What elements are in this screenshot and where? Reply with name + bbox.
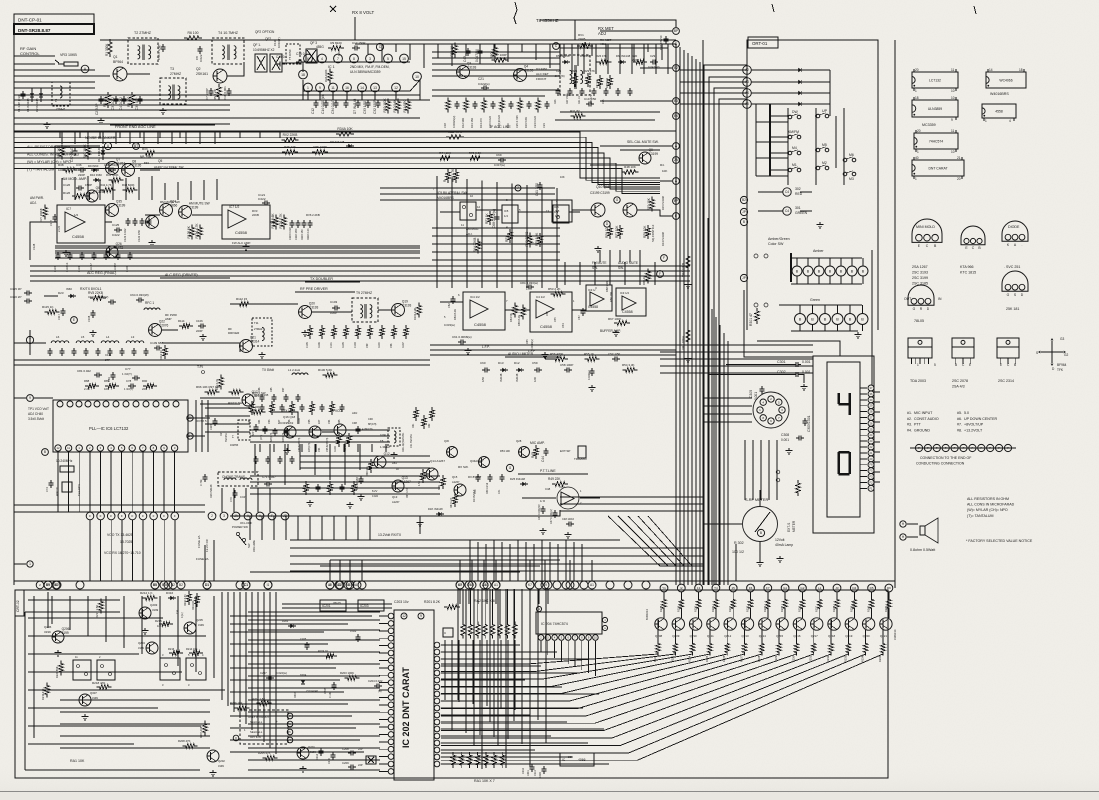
svg-text:Q15: Q15 [452, 475, 458, 479]
svg-text:R100: R100 [334, 446, 337, 452]
svg-text:K7: K7 [528, 583, 532, 587]
svg-text:R 302: R 302 [734, 541, 744, 545]
svg-text:M4: M4 [792, 146, 797, 150]
IC5 1/4 box [552, 200, 572, 222]
PLL vertical drop wires [57, 452, 59, 512]
svg-text:R228: R228 [659, 605, 663, 612]
IF bus lines [230, 94, 420, 96]
svg-text:Q209: Q209 [672, 634, 679, 638]
svg-text:C21: C21 [478, 77, 484, 81]
connector pin above Q215 [781, 584, 789, 592]
svg-text:R107: R107 [402, 342, 405, 348]
svg-text:R105: R105 [342, 342, 345, 348]
resistor R1 330K [108, 39, 112, 57]
svg-text:K7: K7 [458, 583, 462, 587]
transistor Q18 [309, 426, 321, 438]
svg-text:F7: F7 [766, 586, 770, 590]
svg-text:R87 1.2K: R87 1.2K [450, 497, 453, 508]
svg-text:R53 10K: R53 10K [500, 449, 510, 453]
svg-text:C12: C12 [311, 108, 315, 114]
opamp IC3 1/2 second [616, 288, 646, 316]
if right horizontals full [560, 47, 668, 49]
svg-text:C93: C93 [268, 419, 271, 424]
svg-text:10K: 10K [104, 387, 109, 391]
svg-text:2-1/4: 2-1/4 [57, 226, 61, 232]
svg-text:R211 9K: R211 9K [192, 600, 195, 610]
svg-text:G3: G3 [1060, 337, 1064, 341]
svg-text:R27 150K: R27 150K [566, 93, 569, 104]
transistor TX VCO Q [334, 424, 346, 436]
svg-text:20: 20 [957, 177, 961, 181]
svg-text:Q211: Q211 [707, 634, 714, 638]
resistor R9 8220 [328, 46, 344, 50]
svg-text:C18: C18 [443, 123, 447, 128]
svg-text:F: F [121, 514, 123, 518]
switch box 4 [186, 658, 206, 680]
display area border [702, 40, 704, 585]
svg-text:R111 47: R111 47 [90, 263, 93, 272]
svg-text:22K: 22K [142, 387, 147, 391]
svg-text:100P: 100P [337, 49, 341, 56]
resistor R233 [748, 597, 752, 612]
pins column right of IF [673, 28, 680, 35]
connector pin above Q213 [747, 584, 755, 592]
svg-text:AMP: AMP [165, 317, 172, 321]
svg-text:Q216: Q216 [793, 634, 800, 638]
svg-text:D18. IN4148: D18. IN4148 [428, 507, 443, 511]
svg-text:3199: 3199 [152, 608, 159, 612]
resistor R230 lower [794, 641, 798, 656]
noise blanker extra verticals [61, 131, 63, 144]
svg-text:C48: C48 [545, 487, 551, 491]
PLL top pins [57, 401, 63, 407]
svg-text:TX 8Volt: TX 8Volt [262, 368, 274, 372]
IC5 switch box 3 [553, 205, 569, 223]
svg-text:TFK: TFK [1057, 368, 1064, 372]
svg-text:R94: R94 [258, 419, 261, 424]
transistor Q24 A866 [160, 204, 173, 217]
svg-text:POWER SW: POWER SW [232, 525, 248, 529]
svg-text:10/10(T): 10/10(T) [277, 37, 281, 48]
pin BT [133, 143, 140, 150]
svg-text:C3193: C3193 [524, 69, 534, 73]
IC5 switch box 1 [460, 202, 476, 220]
transistor Q217 [811, 618, 823, 630]
svg-text:* FACTORY SELECTED VALUE NOTIC: * FACTORY SELECTED VALUE NOTICE [966, 539, 1033, 543]
pin C rx met [553, 43, 560, 50]
svg-text:L5: L5 [81, 335, 85, 339]
svg-text:Amber: Amber [813, 249, 824, 253]
staircase bus lines [14, 132, 660, 178]
transistor Q19 C3193 [392, 304, 405, 317]
svg-text:10: 10 [470, 194, 474, 198]
package 78L05 [908, 285, 934, 305]
svg-text:R48 10K: R48 10K [624, 165, 636, 169]
svg-text:11: 11 [951, 129, 955, 133]
svg-text:C4558: C4558 [588, 305, 598, 309]
title box DNT-SR28.8.87 [14, 24, 94, 34]
svg-text:C88: C88 [248, 419, 251, 424]
svg-text:R95: R95 [338, 419, 341, 424]
IF parts row under Q3/Q4 [446, 98, 450, 113]
bottom board mid horizontals [282, 603, 392, 605]
svg-text:0.022: 0.022 [372, 495, 379, 498]
74HC574 top pin 12 [536, 606, 541, 611]
svg-text:0.001: 0.001 [802, 360, 811, 364]
diodes on A lines [796, 69, 804, 71]
pin F squelch [661, 255, 668, 262]
svg-text:L1: L1 [818, 586, 822, 590]
fan horizontals to IC202 [441, 663, 527, 665]
svg-text:3199: 3199 [62, 631, 69, 635]
svg-text:A1: A1 [485, 583, 489, 587]
svg-text:1: 1 [307, 86, 309, 90]
pin G mic [506, 464, 513, 471]
svg-text:4.7P(CH): 4.7P(CH) [362, 428, 373, 431]
svg-text:F: F [954, 446, 956, 450]
alc rows horizontals [55, 245, 420, 247]
svg-text:10: 10 [951, 96, 955, 100]
regulator IC203 78L05 [358, 600, 384, 611]
svg-text:M2: M2 [822, 161, 827, 165]
svg-text:F: F [100, 514, 102, 518]
parts between IC7 and Q24 [126, 220, 131, 222]
svg-text:C94: C94 [318, 447, 321, 452]
svg-text:BF964: BF964 [1057, 363, 1067, 367]
svg-text:2SC 3193: 2SC 3193 [912, 271, 928, 275]
switch M2 [816, 166, 820, 170]
title box DNT-CP-01 [14, 14, 94, 24]
svg-text:R232: R232 [826, 655, 830, 662]
svg-text:F: F [663, 256, 665, 260]
resistor ladder RA1 10K X 7 [451, 752, 455, 768]
svg-text:C101: C101 [330, 342, 333, 348]
svg-text:Q213: Q213 [742, 634, 749, 638]
svg-text:82P: 82P [278, 419, 281, 424]
svg-text:R231: R231 [711, 605, 715, 612]
svg-text:15: 15 [402, 57, 406, 61]
svg-text:G: G [913, 307, 916, 311]
svg-text:301: 301 [795, 206, 801, 210]
svg-text:LC7132: LC7132 [929, 78, 941, 82]
svg-text:IC5: IC5 [504, 209, 509, 213]
svg-text:C2076: C2076 [159, 324, 169, 328]
connector pin above Q211 [712, 584, 720, 592]
svg-text:QF2 OPTION: QF2 OPTION [255, 30, 275, 34]
svg-text:C4: C4 [785, 190, 789, 194]
svg-text:R68 4.7K: R68 4.7K [451, 168, 455, 182]
svg-text:R66 10K: R66 10K [609, 292, 613, 302]
svg-text:R50 10/16: R50 10/16 [486, 482, 489, 494]
svg-text:100/1: 100/1 [527, 769, 530, 776]
mid horizontal runs 2 [30, 265, 690, 267]
svg-text:9: 9 [319, 86, 321, 90]
wire power bus [204, 545, 206, 581]
transistor Q208 [655, 618, 667, 630]
svg-text:12: 12 [56, 446, 60, 450]
IC1 pin 18 [299, 70, 308, 79]
mixer wires top [127, 73, 150, 75]
cap C68 0.022 [495, 216, 500, 218]
front end grounds [100, 118, 102, 121]
svg-text:C4 0.022: C4 0.022 [119, 97, 123, 110]
svg-text:C119 0.022: C119 0.022 [289, 227, 292, 240]
svg-text:R29 47K: R29 47K [584, 69, 595, 73]
svg-text:3: 3 [223, 514, 225, 518]
bottom page line [0, 791, 1099, 793]
svg-text:B2: B2 [179, 583, 183, 587]
svg-text:T9 27MHZ: T9 27MHZ [356, 291, 372, 295]
tx rows wires [14, 342, 46, 344]
svg-text:R239: R239 [849, 605, 853, 612]
svg-text:40mA Lamp: 40mA Lamp [775, 543, 793, 547]
svg-text:C67: C67 [577, 315, 581, 320]
svg-text:5: 5 [387, 57, 389, 61]
7-segment display inner box [827, 362, 860, 517]
svg-text:#4.: #4. [907, 428, 912, 432]
svg-text:ULN 3859A/MC3359: ULN 3859A/MC3359 [350, 70, 381, 74]
svg-text:C126: C126 [63, 183, 71, 187]
svg-text:F6: F6 [749, 586, 753, 590]
svg-text:R21 1K: R21 1K [578, 96, 581, 104]
bottom board extra horizontals left [230, 615, 372, 617]
mic connector wires [703, 397, 752, 399]
upper left corner wires [14, 55, 55, 57]
svg-text:15: 15 [732, 586, 736, 590]
svg-text:R4.: R4. [660, 163, 665, 167]
svg-text:R99 1.5K: R99 1.5K [406, 487, 409, 498]
pin F audio [657, 271, 664, 278]
wire front-end AGC [22, 75, 110, 77]
package KTA966 [961, 226, 985, 245]
svg-text:M1: M1 [792, 163, 797, 167]
horizontal gather lines above connector [330, 559, 560, 561]
svg-text:1/2: 1/2 [74, 213, 79, 217]
FET Q2 2SK161 [213, 69, 227, 83]
svg-text:0.033(w): 0.033(w) [444, 323, 455, 327]
svg-text:40: 40 [915, 156, 919, 160]
svg-text:CONNECTION TO THE END OF: CONNECTION TO THE END OF [920, 456, 971, 460]
upper mid wires [14, 130, 440, 132]
main board outer border [100, 39, 676, 41]
svg-text:Q12: Q12 [384, 452, 390, 456]
resistor R6 100 [184, 36, 202, 40]
svg-text:C96: C96 [288, 419, 291, 424]
bottom right extra border [887, 590, 889, 778]
svg-text:C61 0.0068(w): C61 0.0068(w) [452, 335, 472, 339]
svg-text:Q1: Q1 [113, 55, 118, 59]
svg-text:ALC DET: ALC DET [536, 72, 549, 76]
resistor R240 [869, 597, 873, 612]
svg-text:F: F [963, 446, 965, 450]
svg-text:0.022: 0.022 [350, 630, 357, 633]
second top bus RX8V [355, 43, 676, 45]
package 2SC2078 [952, 338, 974, 347]
svg-text:R12 39K: R12 39K [461, 118, 465, 128]
svg-text:13.2Volt RX/TX: 13.2Volt RX/TX [378, 533, 402, 537]
display board ORT-01 outline [747, 40, 878, 330]
svg-text:Q215: Q215 [776, 634, 783, 638]
svg-text:C74: C74 [45, 487, 49, 492]
svg-text:R234: R234 [763, 605, 767, 612]
svg-text:R114: R114 [178, 319, 185, 323]
upper area extra verticals [59, 131, 61, 138]
svg-text:#2.: #2. [907, 417, 912, 421]
resistor R231 [714, 597, 718, 612]
opamp IC2 circle [557, 487, 579, 509]
resistor R239 [852, 597, 856, 612]
svg-text:21: 21 [957, 156, 961, 160]
svg-text:RV5 22KB: RV5 22KB [88, 291, 103, 295]
svg-text:D316: D316 [166, 591, 174, 595]
svg-text:R88: R88 [84, 379, 90, 383]
svg-text:0.047(W): 0.047(W) [475, 49, 479, 62]
svg-text:1: 1 [917, 363, 919, 367]
svg-text:C7 100P: C7 100P [205, 88, 209, 100]
bottom centre vertical bundle [457, 589, 459, 700]
svg-text:D301: D301 [282, 619, 289, 623]
bottom connector row [44, 581, 52, 589]
right bundle verticals [675, 44, 677, 585]
resistor R225 lower [708, 641, 712, 656]
svg-text:L3: L3 [131, 335, 135, 339]
svg-text:+13.2VOLT: +13.2VOLT [964, 428, 983, 432]
svg-text:UP DOWN CENTER: UP DOWN CENTER [964, 417, 997, 421]
svg-text:C205: C205 [300, 637, 307, 641]
svg-text:G: G [1007, 293, 1010, 297]
resistor R222 lower [656, 641, 660, 656]
switch M3 [843, 172, 847, 176]
svg-text:CRT-02: CRT-02 [16, 600, 20, 612]
transistor Q220 [862, 618, 874, 630]
IC package 74HC574 [914, 133, 958, 149]
meter to board wires [735, 544, 737, 581]
svg-text:TX DOUBLER: TX DOUBLER [310, 277, 333, 281]
svg-text:R14 270: R14 270 [479, 118, 483, 128]
svg-text:C37 0.047: C37 0.047 [70, 147, 74, 162]
display connector pin ladder [868, 385, 874, 391]
svg-text:Q212: Q212 [724, 634, 731, 638]
resistor R232 lower [829, 641, 833, 656]
svg-text:A866: A866 [170, 204, 178, 208]
resistor R71 [508, 229, 512, 243]
connector pin above Q220 [868, 584, 876, 592]
switch box 3 [160, 658, 180, 680]
svg-text:C95: C95 [308, 419, 311, 424]
R26 resistor [493, 45, 497, 60]
PLL IC box LC7132 [53, 400, 188, 452]
svg-text:27MHZ: 27MHZ [170, 72, 181, 76]
svg-text:R79 10K: R79 10K [647, 197, 651, 210]
svg-text:C58 100P: C58 100P [560, 363, 573, 367]
transistor Q203 3199 [139, 607, 151, 619]
pins mid right IC5 [515, 185, 521, 191]
am mod wires [30, 222, 57, 260]
svg-text:FRONT END AGC LINE: FRONT END AGC LINE [115, 125, 156, 129]
svg-text:R77 10K: R77 10K [615, 225, 619, 238]
svg-text:D6: D6 [887, 586, 891, 590]
svg-text:D10 IN60: D10 IN60 [90, 173, 102, 177]
svg-text:R241: R241 [884, 605, 888, 612]
svg-text:D5 IN4148: D5 IN4148 [556, 54, 570, 58]
svg-text:R218 47K: R218 47K [92, 681, 105, 685]
if right extra verticals [559, 44, 561, 74]
FET BF964 symbol [1052, 351, 1063, 353]
svg-text:Q17 C3195: Q17 C3195 [254, 393, 269, 397]
lamp 302 RED [783, 188, 791, 196]
upper board bottom edge line [14, 580, 895, 582]
transistor Q207 3199 [79, 694, 91, 706]
svg-text:IN: IN [938, 297, 942, 301]
audio to display bundle [560, 496, 703, 498]
svg-text:WC4066: WC4066 [999, 78, 1012, 82]
svg-text:D4: D4 [852, 586, 856, 590]
svg-text:F: F [142, 514, 144, 518]
svg-text:EXT.SP: EXT.SP [560, 449, 570, 453]
svg-text:3199: 3199 [44, 630, 51, 634]
tx vco transistor [447, 447, 458, 458]
svg-text:R230: R230 [694, 605, 698, 612]
svg-text:IN60: IN60 [66, 287, 72, 291]
opamp IC4 1/2 box [463, 292, 505, 330]
svg-text:Q203: Q203 [150, 603, 158, 607]
svg-text:C3193: C3193 [467, 66, 477, 70]
svg-text:MC3359: MC3359 [922, 123, 936, 127]
svg-text:R134 4.7K: R134 4.7K [195, 223, 199, 239]
svg-text:R95 10K: R95 10K [344, 442, 347, 452]
svg-text:R42 4.7K: R42 4.7K [100, 183, 112, 187]
svg-text:R240: R240 [867, 605, 871, 612]
svg-text:C111: C111 [105, 353, 112, 357]
svg-text:27MHZ: 27MHZ [254, 327, 263, 331]
R125 R134 resistors [190, 225, 194, 240]
svg-text:TDA 2003: TDA 2003 [910, 379, 926, 383]
transistor Q7 A1267 [106, 162, 119, 175]
display left verticals [699, 210, 701, 585]
svg-text:F: F [110, 514, 112, 518]
IF top verticals [367, 44, 369, 54]
svg-text:IC 1: IC 1 [328, 65, 335, 69]
transistor Q25 [146, 216, 159, 229]
svg-text:F: F [174, 514, 176, 518]
svg-text:8: 8 [353, 57, 355, 61]
svg-text:R11 57K: R11 57K [403, 99, 407, 112]
svg-text:DW: DW [792, 110, 798, 114]
svg-text:R110 47: R110 47 [114, 262, 117, 272]
svg-text:. SVC 251: . SVC 251 [1004, 265, 1020, 269]
svg-text:AM/FM: AM/FM [788, 130, 799, 134]
C43 cap [466, 50, 471, 52]
display right stubs [874, 391, 880, 393]
resistors R79 R76 R77 R78 [650, 197, 654, 212]
svg-text:Q220: Q220 [863, 634, 870, 638]
vco upper parts [260, 396, 265, 398]
lamp 301 GREEN [783, 207, 791, 215]
svg-text:Q218: Q218 [828, 634, 835, 638]
svg-text:T4: T4 [714, 586, 718, 590]
svg-text:MINI MOLD: MINI MOLD [916, 225, 935, 229]
bottom board outline [15, 590, 888, 778]
transistor Q26 A473 [106, 246, 118, 258]
R17 100P [492, 58, 509, 62]
74HC574 pin drops [540, 641, 542, 652]
resistor R234 [766, 597, 770, 612]
svg-text:C3193: C3193 [402, 304, 412, 308]
pin B pll [42, 449, 49, 456]
svg-text:93P: 93P [282, 387, 285, 392]
PLL F pin row [86, 512, 94, 520]
svg-text:IN4148: IN4148 [515, 373, 519, 382]
